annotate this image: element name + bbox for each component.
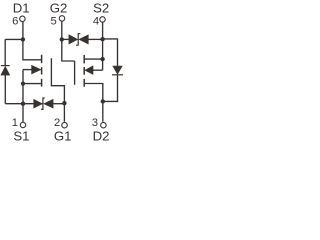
svg-text:D1: D1 [13,0,30,15]
svg-text:1: 1 [12,117,18,129]
svg-text:3: 3 [92,117,98,129]
svg-text:S2: S2 [93,0,109,15]
svg-text:D2: D2 [93,129,110,142]
svg-text:S1: S1 [13,129,29,142]
svg-text:G1: G1 [54,129,72,142]
svg-text:5: 5 [51,16,57,28]
svg-text:2: 2 [54,117,60,129]
svg-text:G2: G2 [50,0,68,15]
svg-text:4: 4 [93,15,99,27]
svg-text:6: 6 [12,15,18,27]
